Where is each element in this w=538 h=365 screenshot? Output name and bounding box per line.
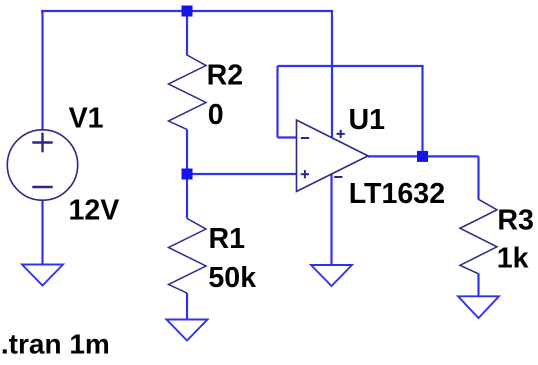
ground V1 <box>22 265 63 286</box>
svg-text:R2: R2 <box>207 59 244 91</box>
svg-text:R3: R3 <box>497 205 534 237</box>
voltage source V1 <box>7 130 77 200</box>
svg-text:R1: R1 <box>209 223 246 255</box>
svg-text:12V: 12V <box>69 194 120 226</box>
op-amp U1 <box>297 120 369 192</box>
wire feedback right vertical <box>421 65 423 156</box>
wire opamp V+ supply drop <box>331 10 333 137</box>
svg-text:LT1632: LT1632 <box>349 178 445 210</box>
wire R2 top lead <box>186 11 188 56</box>
wire V1 top drop <box>41 10 43 130</box>
wire opamp output <box>368 155 479 157</box>
node junction middle <box>182 169 193 180</box>
svg-text:1k: 1k <box>497 242 529 274</box>
svg-text:.tran 1m: .tran 1m <box>1 328 110 359</box>
resistor R2 <box>169 55 207 130</box>
wire V1 bottom lead <box>41 200 43 265</box>
node junction top <box>182 6 193 17</box>
resistor R3 <box>460 199 497 273</box>
wire feedback left vertical <box>276 66 278 138</box>
wire R2 bottom lead <box>186 130 188 175</box>
node junction output <box>417 151 428 162</box>
wire R1 bottom lead <box>186 293 188 320</box>
resistor R1 <box>169 219 207 294</box>
wire inverting input stub <box>278 136 297 138</box>
wire R3 bottom lead <box>477 274 479 297</box>
ground R1 <box>167 320 208 341</box>
svg-text:0: 0 <box>208 99 224 131</box>
svg-text:U1: U1 <box>349 104 386 136</box>
ground R3 <box>458 296 499 318</box>
wire feedback top horizontal <box>278 65 423 67</box>
wire noninverting input <box>187 173 297 175</box>
wire R3 top lead <box>477 156 479 199</box>
wire opamp V- drop <box>330 174 332 265</box>
wire R1 top lead <box>186 174 188 219</box>
wire top rail <box>41 10 333 12</box>
ground opamp <box>311 265 352 286</box>
svg-text:50k: 50k <box>208 262 256 294</box>
svg-text:V1: V1 <box>69 103 104 135</box>
